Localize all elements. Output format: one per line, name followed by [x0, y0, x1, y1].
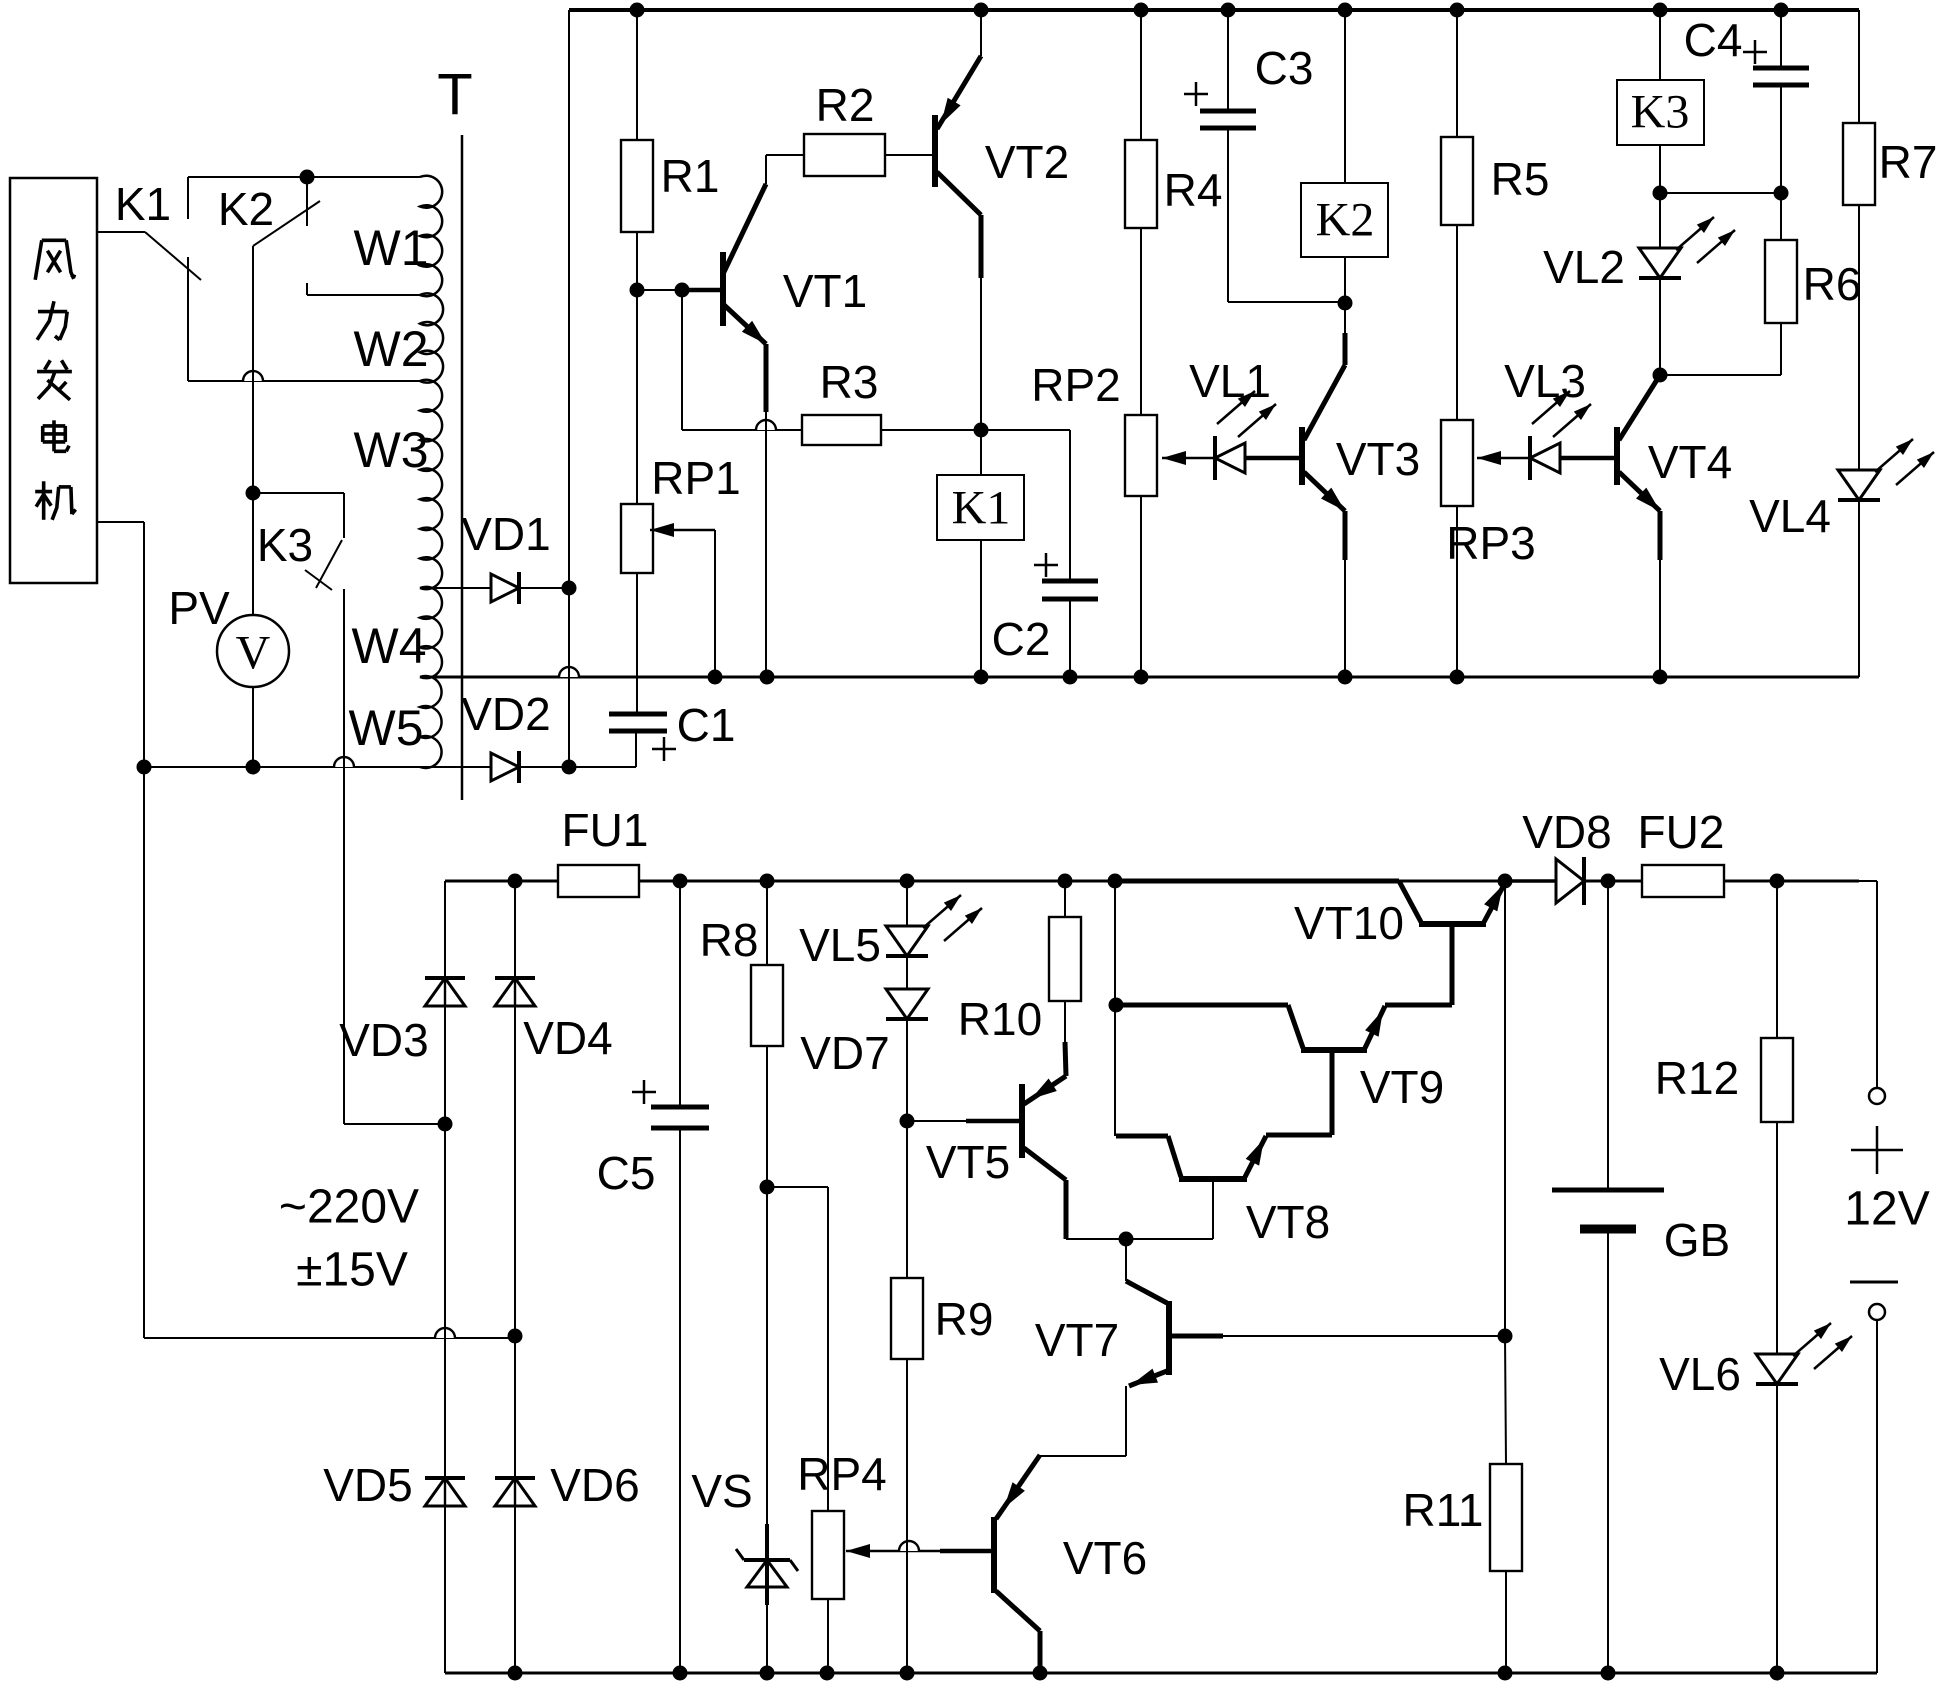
svg-text:RP2: RP2: [1031, 359, 1120, 411]
svg-text:VT7: VT7: [1035, 1314, 1119, 1366]
svg-text:K3: K3: [257, 519, 313, 571]
svg-text:VT6: VT6: [1063, 1532, 1147, 1584]
svg-text:VT4: VT4: [1648, 436, 1732, 488]
svg-text:C1: C1: [677, 699, 736, 751]
svg-text:C4: C4: [1684, 14, 1743, 66]
svg-text:W2: W2: [354, 321, 429, 377]
svg-text:R2: R2: [816, 79, 875, 131]
svg-text:RP3: RP3: [1446, 517, 1535, 569]
svg-text:W4: W4: [352, 618, 427, 674]
svg-text:R3: R3: [820, 356, 879, 408]
svg-text:VD7: VD7: [800, 1027, 889, 1079]
svg-text:R4: R4: [1164, 164, 1223, 216]
svg-text:VD3: VD3: [339, 1014, 428, 1066]
svg-text:FU1: FU1: [562, 804, 649, 856]
svg-text:VT5: VT5: [926, 1136, 1010, 1188]
svg-text:VL1: VL1: [1189, 355, 1271, 407]
svg-text:VL2: VL2: [1543, 241, 1625, 293]
svg-text:R8: R8: [700, 914, 759, 966]
svg-text:FU2: FU2: [1638, 806, 1725, 858]
svg-text:VD2: VD2: [461, 688, 550, 740]
svg-text:VT10: VT10: [1294, 897, 1404, 949]
svg-text:VD4: VD4: [523, 1012, 612, 1064]
svg-text:W1: W1: [354, 220, 429, 276]
svg-text:±15V: ±15V: [296, 1244, 408, 1297]
svg-text:GB: GB: [1664, 1214, 1730, 1266]
svg-text:VD5: VD5: [323, 1459, 412, 1511]
svg-text:VL3: VL3: [1504, 355, 1586, 407]
svg-text:R11: R11: [1403, 1484, 1484, 1536]
svg-text:V: V: [236, 627, 271, 680]
svg-text:12V: 12V: [1844, 1183, 1929, 1236]
svg-text:VL6: VL6: [1659, 1348, 1741, 1400]
svg-text:VL4: VL4: [1749, 490, 1831, 542]
svg-text:RP1: RP1: [651, 452, 740, 504]
svg-text:K2: K2: [1316, 194, 1375, 247]
svg-text:W3: W3: [354, 422, 429, 478]
svg-text:VT8: VT8: [1246, 1196, 1330, 1248]
svg-text:VT3: VT3: [1336, 433, 1420, 485]
svg-text:K1: K1: [952, 482, 1011, 535]
svg-text:C5: C5: [597, 1147, 656, 1199]
svg-text:VD8: VD8: [1522, 806, 1611, 858]
svg-text:R1: R1: [661, 150, 720, 202]
svg-text:K3: K3: [1631, 86, 1690, 139]
svg-text:K1: K1: [115, 178, 171, 230]
svg-text:VL5: VL5: [799, 919, 881, 971]
svg-text:VT2: VT2: [985, 136, 1069, 188]
svg-text:VD6: VD6: [550, 1459, 639, 1511]
svg-text:VT9: VT9: [1360, 1061, 1444, 1113]
svg-text:R6: R6: [1803, 258, 1862, 310]
svg-text:R9: R9: [935, 1293, 994, 1345]
svg-text:C3: C3: [1255, 42, 1314, 94]
svg-text:T: T: [437, 63, 472, 128]
svg-text:K2: K2: [218, 183, 274, 235]
svg-text:C2: C2: [992, 613, 1051, 665]
svg-text:R7: R7: [1879, 136, 1938, 188]
svg-text:VS: VS: [691, 1465, 752, 1517]
svg-text:RP4: RP4: [797, 1448, 886, 1500]
svg-text:VT1: VT1: [783, 265, 867, 317]
svg-text:R12: R12: [1655, 1052, 1739, 1104]
svg-text:R5: R5: [1491, 153, 1550, 205]
svg-text:VD1: VD1: [461, 508, 550, 560]
svg-text:~220V: ~220V: [279, 1181, 419, 1234]
svg-text:R10: R10: [958, 993, 1042, 1045]
svg-text:W5: W5: [349, 700, 424, 756]
svg-text:PV: PV: [168, 582, 230, 634]
